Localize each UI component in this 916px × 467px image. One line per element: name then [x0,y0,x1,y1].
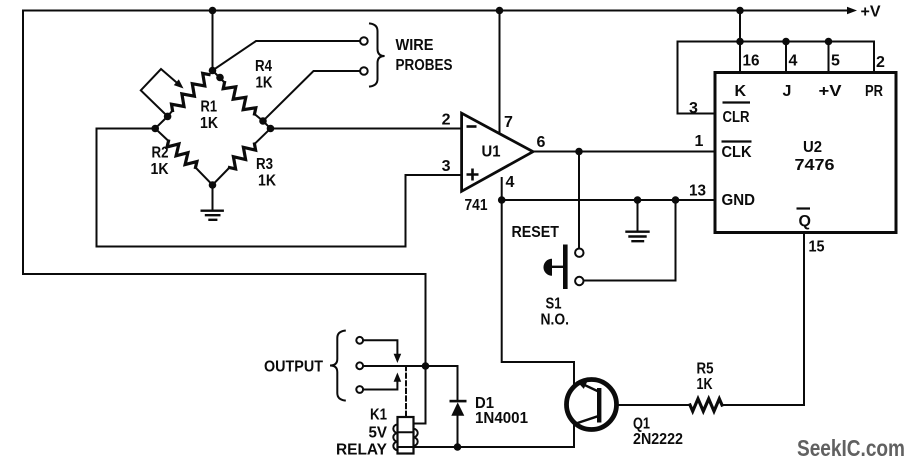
svg-text:1K: 1K [200,115,218,132]
wire 7476 +V vertical [739,11,741,42]
wire S1 upper branch [578,152,580,249]
transistor emitter diagonal [581,383,600,392]
wire R4 stubs [213,71,271,129]
S1 knob [543,259,552,276]
resistor R4 body [223,83,256,115]
brace output [330,331,345,401]
wire left vertical x96 [96,129,98,247]
node bus16 [736,38,744,46]
diode D1 cathode bar [450,400,467,403]
wire probe 1 [213,41,361,71]
svg-text:U2: U2 [803,139,822,156]
node D1 rail [454,443,462,451]
probe terminal circle 2 [360,67,368,75]
svg-text:RESET: RESET [512,224,560,241]
node bridge bottom [209,181,217,189]
S1 plunger bar [563,245,568,290]
svg-text:1: 1 [695,133,704,150]
svg-text:R3: R3 [256,156,273,173]
svg-text:GND: GND [722,192,756,209]
node bridge right upper [259,117,267,125]
resistor R1 body [172,73,210,110]
svg-text:15: 15 [809,239,825,256]
wire top +V rail [23,10,848,12]
svg-text:R4: R4 [255,58,272,75]
node rail-7476 [736,7,744,15]
op-amp U1 triangle [462,113,533,191]
svg-text:+V: +V [819,83,842,100]
wire Q-bar pin15 [803,234,805,405]
wire opamp pin3 input [406,174,462,176]
relay coil right loops [414,429,418,446]
svg-text:PROBES: PROBES [396,57,453,74]
svg-text:Q: Q [799,213,811,230]
wire bottom relay rail [414,446,575,448]
transistor base bar [597,388,601,423]
wire horizontal y246 [97,246,406,248]
svg-text:5: 5 [831,53,840,70]
CLR overline [723,101,751,103]
resistor R3 body [230,144,256,169]
svg-text:5V: 5V [369,425,388,442]
R1 adjust arrowhead [174,79,184,88]
relay contact circles [356,337,363,344]
svg-text:3: 3 [689,100,698,117]
wire CLR pin3 [678,42,714,114]
svg-text:WIRE: WIRE [396,37,434,54]
ground 2 bars [627,232,649,242]
node bridge left [151,125,159,133]
7476 bus [678,41,875,43]
wire R1 lower stub [155,111,172,129]
svg-text:OUTPUT: OUTPUT [264,359,323,376]
node pin4-gnd [498,196,506,204]
wire contact bottom [363,382,397,390]
wire transistor upper vertical [573,362,575,387]
resistor R5 body [690,399,722,411]
relay coil left loops [393,425,397,451]
node bus4 [782,38,790,46]
relay K1 coil box [398,417,414,454]
U2 7476 box [715,73,896,233]
wire contact middle [363,365,457,367]
wire left border down [22,11,24,275]
wire opamp pin7 vertical [499,11,501,135]
svg-text:16: 16 [743,53,760,70]
svg-text:7: 7 [504,114,513,131]
S1 contact lower [575,277,583,285]
svg-text:CLR: CLR [723,109,750,126]
wire bridge top vertical [212,11,214,71]
wire D1 to rail [457,416,459,447]
svg-text:1K: 1K [256,75,273,92]
wire opamp output pin6 [533,151,714,153]
svg-text:J: J [783,83,792,100]
svg-text:2N2222: 2N2222 [633,431,683,448]
node bridge right [267,125,275,133]
svg-text:4: 4 [789,53,798,70]
ground bridge bars [202,211,223,220]
R1 adjust detour [141,69,176,116]
7476 pin stubs [740,42,874,72]
node rail-bridge [209,7,217,15]
svg-text:1K: 1K [697,376,713,393]
arrowhead up [394,373,402,382]
S1 stem [551,266,563,268]
wire vertical to relay junction [414,274,426,424]
node gnd symbol [634,196,642,204]
svg-text:R1: R1 [201,99,218,116]
svg-text:R2: R2 [152,145,169,162]
svg-text:1K: 1K [258,173,276,190]
svg-text:K1: K1 [370,407,387,424]
svg-text:1K: 1K [151,161,169,178]
wire gnd line y200 [502,199,714,201]
wire opamp pin4 vertical [501,178,503,200]
svg-text:R5: R5 [697,361,714,378]
relay linkage dashed [405,366,407,417]
svg-text:N.O.: N.O. [541,312,570,329]
node output-s1 [575,148,583,156]
node s1 branch [672,196,680,204]
ground bridge stub [212,185,214,211]
svg-text:CLK: CLK [722,144,752,161]
wire D1 branch down [457,366,459,400]
probe terminal circle 1 [360,37,368,45]
wire vertical to pin3 [405,175,407,247]
svg-text:+V: +V [861,4,881,21]
ground 2 stub [637,200,639,231]
svg-text:6: 6 [537,134,546,151]
transistor Q1 circle [567,380,617,430]
svg-text:RELAY: RELAY [336,442,387,459]
node bridge top [209,67,217,75]
node rail-pin7 [496,7,504,15]
wire x502 down to collector link [502,200,574,362]
svg-text:PR: PR [865,83,883,100]
+V arrowhead [847,7,857,15]
opamp plus [467,169,479,181]
wire R5 to pin15 [722,404,804,406]
wire contact top [363,340,397,354]
svg-text:S1: S1 [546,296,562,313]
resistor R2 body [167,141,197,168]
wire R2 stubs [155,129,212,186]
svg-text:4: 4 [506,174,515,191]
svg-text:Q1: Q1 [633,416,650,433]
svg-text:7476: 7476 [795,157,835,174]
svg-text:13: 13 [689,183,706,200]
node bridge top2 [216,74,224,82]
wire opamp pin2 input from bridge [271,128,462,130]
node bus5 [825,38,833,46]
transistor emitter arrowhead [577,381,588,389]
svg-text:741: 741 [465,197,488,214]
svg-text:SeekIC.com: SeekIC.com [797,435,905,461]
node R1 low [164,113,172,121]
wire left apex to border [97,128,156,130]
svg-text:2: 2 [876,54,885,71]
arrowhead down [394,354,402,363]
wire R3 stubs [213,129,271,186]
brace wire probes [370,24,385,87]
node relay junction [422,362,430,370]
diode D1 triangle [451,402,464,415]
wire probe 2 [263,71,360,121]
relay coil internal lines [398,432,414,447]
Q overline [797,207,811,209]
wire base to R5 [601,404,690,406]
wire transistor lower vertical [573,424,575,448]
svg-text:2: 2 [442,112,451,129]
svg-text:K: K [735,83,747,100]
transistor collector diagonal [575,416,600,424]
svg-text:U1: U1 [482,144,501,161]
opamp minus [467,125,477,128]
svg-text:3: 3 [442,158,451,175]
wire S1 lower branch [584,200,676,281]
svg-text:1N4001: 1N4001 [475,410,528,427]
CLK overline [722,140,752,142]
wire bottom-left horizontal [23,273,426,275]
S1 contact upper [575,249,583,257]
